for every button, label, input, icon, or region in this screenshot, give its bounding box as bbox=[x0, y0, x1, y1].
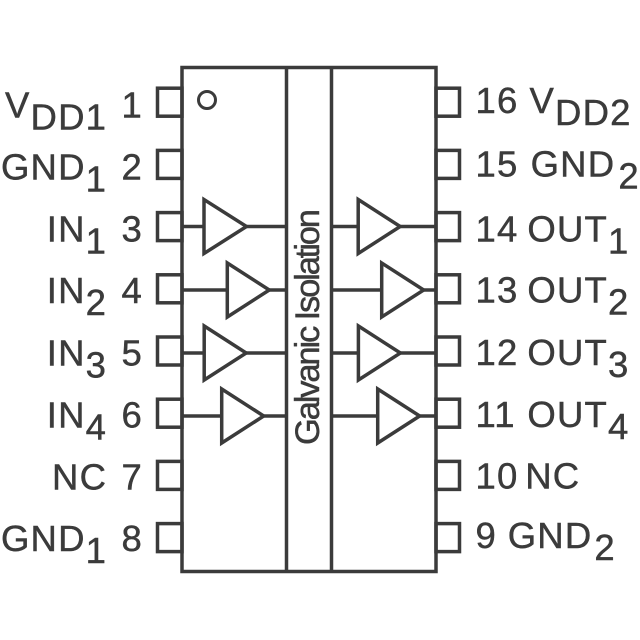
pin 9 bbox=[436, 524, 460, 552]
svg-text:OUT1: OUT1 bbox=[527, 208, 629, 261]
pin 8 bbox=[158, 524, 183, 552]
pin 3 bbox=[158, 213, 183, 241]
svg-text:IN4 6: IN4 6 bbox=[47, 394, 143, 447]
pin 13 bbox=[436, 275, 460, 303]
wire buffer A3 to barrier bbox=[246, 351, 286, 355]
wire buffer B4 to OUT4 bbox=[420, 414, 436, 418]
wire buffer B1 to OUT1 bbox=[400, 225, 436, 229]
pin 1 bbox=[158, 88, 183, 116]
wire IN3 to buffer A3 bbox=[182, 351, 204, 355]
pin 2 bbox=[158, 150, 183, 178]
svg-text:GND2: GND2 bbox=[531, 144, 640, 197]
wire buffer A4 to barrier bbox=[264, 414, 287, 418]
pin 12 bbox=[436, 337, 460, 365]
buffer A3 bbox=[204, 326, 246, 380]
svg-text:OUT2: OUT2 bbox=[527, 270, 629, 323]
wire barrier to buffer B2 bbox=[332, 288, 382, 292]
pin 4 bbox=[158, 275, 183, 303]
svg-text:13: 13 bbox=[476, 270, 519, 311]
pin 10 bbox=[436, 461, 460, 489]
wire IN1 to buffer A1 bbox=[182, 225, 204, 229]
svg-text:12: 12 bbox=[476, 332, 519, 373]
isolation barrier left line bbox=[285, 68, 289, 572]
isolation barrier right line bbox=[330, 68, 334, 572]
svg-text:VDD2: VDD2 bbox=[530, 80, 632, 133]
wire barrier to buffer B4 bbox=[332, 414, 378, 418]
svg-text:14: 14 bbox=[476, 208, 519, 249]
pin 7 bbox=[158, 461, 183, 489]
svg-text:GND1 8: GND1 8 bbox=[1, 518, 143, 571]
svg-text:IN2 4: IN2 4 bbox=[47, 270, 143, 323]
svg-text:15: 15 bbox=[476, 144, 519, 185]
pin 6 bbox=[158, 399, 183, 427]
pin 14 bbox=[436, 213, 460, 241]
svg-text:9: 9 bbox=[476, 515, 498, 556]
buffer B2 bbox=[382, 263, 424, 317]
wire buffer B2 to OUT2 bbox=[424, 288, 436, 292]
wire IN2 to buffer A2 bbox=[182, 288, 227, 292]
IC body U1 bbox=[182, 68, 436, 572]
svg-text:Galvanic Isolation: Galvanic Isolation bbox=[289, 209, 327, 445]
buffer A1 bbox=[204, 200, 247, 254]
svg-text:16: 16 bbox=[476, 80, 519, 121]
pin 16 bbox=[436, 88, 460, 116]
buffer B1 bbox=[358, 200, 400, 254]
wire buffer B3 to OUT3 bbox=[400, 351, 436, 355]
svg-text:GND2: GND2 bbox=[508, 515, 616, 568]
wire barrier to buffer B3 bbox=[332, 351, 359, 355]
svg-text:IN3 5: IN3 5 bbox=[47, 332, 143, 385]
svg-text:11: 11 bbox=[476, 394, 516, 435]
buffer A2 bbox=[227, 263, 269, 317]
svg-text:GND1 2: GND1 2 bbox=[1, 147, 143, 200]
pin 1 indicator dot bbox=[199, 92, 216, 109]
svg-text:IN1 3: IN1 3 bbox=[47, 208, 143, 261]
pin 5 bbox=[158, 337, 183, 365]
wire IN4 to buffer A4 bbox=[182, 414, 222, 418]
buffer B4 bbox=[378, 389, 420, 443]
buffer B3 bbox=[358, 326, 400, 380]
wire buffer A2 to barrier bbox=[269, 288, 286, 292]
svg-text:OUT3: OUT3 bbox=[527, 332, 629, 385]
buffer A4 bbox=[222, 389, 264, 443]
svg-text:OUT4: OUT4 bbox=[527, 394, 629, 447]
svg-text:NC 7: NC 7 bbox=[52, 456, 143, 497]
svg-text:10: 10 bbox=[476, 455, 519, 496]
svg-text:NC: NC bbox=[525, 455, 580, 496]
pin 11 bbox=[436, 399, 460, 427]
pin 15 bbox=[436, 150, 460, 178]
wire buffer A1 to barrier bbox=[247, 225, 287, 229]
wire barrier to buffer B1 bbox=[332, 225, 359, 229]
svg-text:VDD1 1: VDD1 1 bbox=[5, 84, 143, 137]
